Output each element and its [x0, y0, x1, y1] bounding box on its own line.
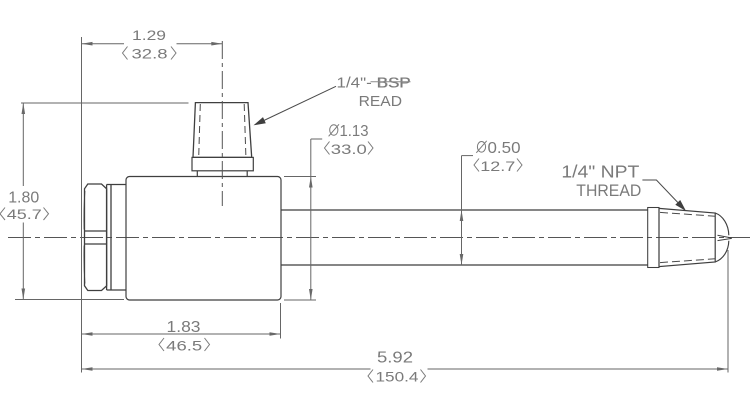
arrow left 1.29	[82, 42, 93, 46]
svg-text:READ: READ	[359, 93, 403, 110]
plug collar	[192, 157, 253, 170]
arrow up dia0.50	[460, 210, 464, 221]
svg-text:5.92: 5.92	[377, 349, 413, 366]
arrow right 5.92	[717, 367, 728, 371]
hex nut	[84, 184, 107, 291]
npt collar ring	[648, 208, 659, 268]
dimension dia 1.13 leader	[284, 139, 322, 300]
arrow left 1.83	[82, 332, 93, 336]
arrowhead BSP leader	[254, 117, 266, 125]
svg-text:150.4: 150.4	[376, 368, 419, 384]
svg-text:BSP: BSP	[377, 75, 411, 92]
arrow up dia1.13	[309, 177, 313, 188]
dimension 1.80	[15, 103, 189, 300]
svg-text:33.0: 33.0	[331, 141, 367, 157]
svg-text:46.5: 46.5	[166, 337, 202, 353]
text (45.7)	[0, 208, 49, 221]
dome tip	[715, 213, 729, 235]
text (32.8)	[123, 47, 177, 60]
svg-text:32.8: 32.8	[132, 46, 168, 62]
dimension dia 0.50 leader	[462, 156, 474, 265]
text (150.4)	[368, 370, 426, 383]
svg-text:0.50: 0.50	[488, 140, 521, 157]
plug centerline	[221, 41, 223, 206]
plug neck	[197, 171, 247, 177]
text (46.5)	[159, 338, 210, 351]
washer sleeve between nut and body	[107, 185, 126, 291]
text (12.7)	[474, 159, 522, 172]
extension line left long	[81, 37, 83, 373]
svg-text:12.7: 12.7	[480, 158, 515, 174]
svg-text:1/4" NPT: 1/4" NPT	[561, 161, 639, 181]
arrowhead NPT leader	[675, 200, 686, 211]
svg-text:1.29: 1.29	[132, 27, 166, 43]
arrow down dia1.13	[309, 289, 313, 300]
tip notch	[718, 235, 732, 240]
arrow up 1.80	[22, 103, 26, 114]
centerline main axis	[8, 237, 750, 239]
tube stem top edge	[281, 209, 648, 211]
leader NPT label	[642, 180, 684, 209]
arrow down 1.80	[22, 289, 26, 300]
dimension 1.29	[82, 43, 223, 45]
text (33.0)	[325, 142, 374, 155]
npt thread hidden lines	[660, 212, 715, 216]
npt taper	[659, 208, 715, 266]
dimension 5.92	[82, 250, 729, 373]
arrow down dia0.50	[460, 254, 464, 265]
arrow left 5.92	[82, 367, 93, 371]
svg-text:1.80: 1.80	[8, 190, 39, 207]
svg-text:45.7: 45.7	[7, 206, 42, 222]
arrow right 1.29	[211, 42, 222, 46]
arrow right 1.83	[270, 332, 281, 336]
dimension 1.83	[82, 303, 281, 339]
plug thread hidden lines	[199, 104, 201, 157]
leader BSP label	[257, 86, 337, 124]
svg-text:THREAD: THREAD	[576, 181, 641, 200]
plug taper body	[193, 103, 252, 158]
main body block	[126, 177, 281, 301]
svg-text:1.83: 1.83	[167, 319, 201, 336]
svg-text:1.13: 1.13	[340, 123, 369, 140]
tube stem bottom edge	[281, 264, 648, 266]
